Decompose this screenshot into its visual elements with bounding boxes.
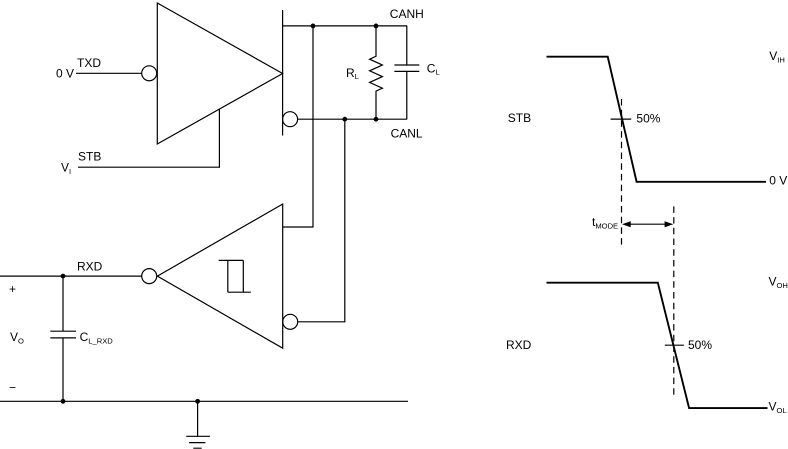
- dashed line STB 50%: [621, 99, 623, 248]
- hysteresis symbol: [219, 260, 251, 292]
- RXD waveform: [547, 283, 768, 408]
- junction dot CANL right: [374, 117, 379, 122]
- wire CANH: [283, 25, 408, 27]
- receiver output bubble RXD: [142, 269, 157, 284]
- svg-text:VOH: VOH: [769, 275, 788, 290]
- svg-text:CL_RXD: CL_RXD: [80, 330, 114, 345]
- svg-text:VO: VO: [10, 330, 24, 345]
- 50% tick RXD: [665, 344, 684, 346]
- svg-text:CANH: CANH: [390, 7, 424, 21]
- wire STB input: [78, 109, 219, 168]
- receiver input bubble: [283, 314, 298, 329]
- capacitor CL_RXD: [50, 276, 76, 401]
- driver output bar: [282, 10, 284, 136]
- svg-text:50%: 50%: [688, 338, 712, 352]
- svg-text:STB: STB: [508, 111, 531, 125]
- svg-text:STB: STB: [78, 150, 101, 164]
- receiver U2: [157, 204, 282, 348]
- ground rail wire: [0, 400, 408, 402]
- svg-text:CL: CL: [427, 61, 440, 76]
- resistor RL: [370, 26, 383, 119]
- wire CANL to receiver input: [298, 119, 345, 322]
- svg-text:tMODE: tMODE: [592, 215, 618, 230]
- junction dot CANH left: [311, 24, 316, 29]
- svg-text:+: +: [9, 282, 16, 296]
- 50% tick STB: [611, 118, 632, 120]
- svg-text:0 V: 0 V: [56, 67, 74, 81]
- svg-text:RL: RL: [346, 66, 359, 81]
- junction dot CANH right: [374, 24, 379, 29]
- svg-text:RXD: RXD: [77, 260, 103, 274]
- arrow tMODE: [630, 223, 665, 225]
- svg-text:CANL: CANL: [391, 126, 423, 140]
- junction dot RXD: [61, 274, 66, 279]
- junction dot rail ground: [195, 399, 200, 404]
- wire TXD input: [76, 72, 142, 74]
- ground: [186, 401, 210, 448]
- capacitor CL: [394, 26, 419, 119]
- svg-text:VI: VI: [61, 161, 71, 176]
- STB waveform: [547, 57, 767, 182]
- dashed line RXD 50%: [673, 206, 675, 396]
- svg-text:0 V: 0 V: [769, 173, 787, 187]
- svg-text:50%: 50%: [636, 112, 660, 126]
- driver U1: [157, 3, 282, 144]
- junction dot CANL left: [342, 117, 347, 122]
- wire CANL: [298, 118, 408, 120]
- junction dot rail left: [61, 399, 66, 404]
- svg-text:TXD: TXD: [77, 56, 101, 70]
- driver output bubble CANL: [283, 112, 298, 127]
- svg-text:RXD: RXD: [506, 338, 532, 352]
- svg-text:−: −: [9, 381, 16, 395]
- wire CANH to receiver input: [283, 26, 313, 227]
- wire RXD: [0, 275, 142, 277]
- driver input bubble: [142, 66, 157, 81]
- svg-text:VOL: VOL: [769, 400, 787, 415]
- svg-text:VIH: VIH: [769, 49, 785, 64]
